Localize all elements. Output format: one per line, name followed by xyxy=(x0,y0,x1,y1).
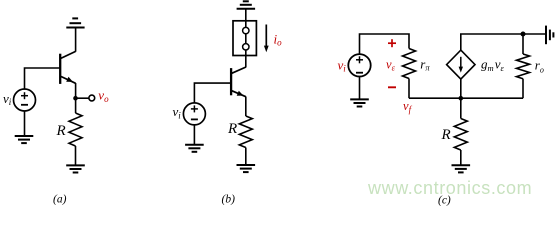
svg-text:R: R xyxy=(441,127,451,143)
wire r_o to bottom rail (c) xyxy=(522,79,524,99)
resistor R (a) xyxy=(69,113,82,146)
wire box to collector (b) xyxy=(245,50,247,67)
meter box (b) xyxy=(233,21,256,56)
dependent source g_m v_eps (c) xyxy=(447,50,475,79)
svg-text:R: R xyxy=(56,123,66,139)
wire resistor to ground (a) xyxy=(75,146,77,165)
svg-text:vε: vε xyxy=(386,57,396,72)
wire source to ground (b) xyxy=(193,125,195,145)
svg-text:vi: vi xyxy=(173,104,182,120)
bottom rail (c) xyxy=(409,97,523,99)
svg-text:www.cntronics.com: www.cntronics.com xyxy=(367,178,532,198)
wire source to ground (a) xyxy=(24,111,26,136)
wire emitter down (b) xyxy=(245,97,247,117)
wire r_pi to bottom rail (c) xyxy=(408,79,410,99)
wire diamond bottom to rail (c) xyxy=(460,79,462,98)
ground (bottom of c) xyxy=(452,165,471,172)
wire source up and right to r_pi (c) xyxy=(360,34,410,54)
node dot bottom rail (c) xyxy=(459,96,464,101)
svg-text:vo: vo xyxy=(98,87,109,103)
svg-text:gm vε: gm vε xyxy=(481,57,505,74)
arrow i_o (b) xyxy=(264,25,269,53)
svg-text:(a): (a) xyxy=(53,194,67,206)
svg-text:rπ: rπ xyxy=(420,57,430,73)
ground (below source c) xyxy=(350,99,369,106)
svg-text:R: R xyxy=(227,121,237,137)
label plus (c) xyxy=(388,39,396,47)
wire R to ground (c) xyxy=(460,150,462,165)
source v_i (c) xyxy=(348,54,370,76)
node dot top rail (c) xyxy=(521,32,526,37)
resistor r_pi (c) xyxy=(403,49,416,79)
wire collector to top ground xyxy=(75,28,77,51)
wire rail to r_o (c) xyxy=(522,34,524,54)
source v_i (a) xyxy=(14,89,36,111)
ground (top of a) xyxy=(66,18,84,27)
wire node to R (c) xyxy=(460,98,462,118)
svg-text:ro: ro xyxy=(535,57,544,74)
ground (top of b) xyxy=(237,1,256,8)
node dot emitter (a) xyxy=(73,96,78,101)
wire resistor to ground (b) xyxy=(245,148,247,166)
transistor Q (a) xyxy=(60,51,75,84)
ground (right side of c) xyxy=(546,26,553,45)
ground (below source b) xyxy=(185,145,204,152)
wire base (b) xyxy=(194,83,231,103)
terminal circle v_o (a) xyxy=(89,95,95,101)
label minus (c) xyxy=(388,86,396,88)
svg-text:vi: vi xyxy=(338,57,347,73)
wire diamond top to rail (c) xyxy=(461,34,546,50)
wire emitter down (a) xyxy=(75,83,77,113)
wire ground to meter box (b) xyxy=(245,9,247,28)
transistor Q (b) xyxy=(231,67,246,97)
wire base (a) xyxy=(25,68,61,90)
ground (bottom of a) xyxy=(66,165,85,172)
svg-text:io: io xyxy=(274,31,283,47)
resistor r_o (c) xyxy=(517,54,530,79)
wire source to ground (c) xyxy=(359,77,361,100)
svg-text:(b): (b) xyxy=(222,194,236,206)
resistor R (b) xyxy=(239,116,252,148)
ground (below source a) xyxy=(15,136,34,143)
svg-text:vi: vi xyxy=(3,91,12,107)
wire to output terminal (a) xyxy=(76,97,89,99)
resistor R (c) xyxy=(454,119,467,151)
source v_i (b) xyxy=(183,103,205,125)
ground (bottom of b) xyxy=(237,165,256,172)
svg-text:vf: vf xyxy=(403,99,413,115)
